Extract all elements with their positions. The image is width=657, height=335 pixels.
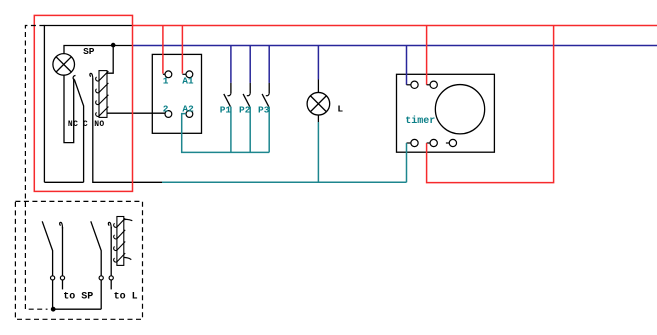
wire red phase bus — [132, 25, 657, 27]
pin terminal A1 — [182, 71, 192, 78]
svg-text:2: 2 — [163, 103, 169, 114]
wire red return loop — [427, 26, 554, 183]
wire box bottom left segment — [44, 181, 83, 183]
wire red drop to terminal 1 — [162, 26, 164, 74]
lamp SP bottom leads (U channel) — [64, 75, 74, 143]
svg-text:to SP: to SP — [63, 292, 93, 303]
wire S1 fixed stub — [62, 280, 64, 289]
contact NO hook — [90, 73, 93, 79]
pin S2 fixed — [109, 276, 113, 280]
svg-text:NC: NC — [68, 120, 78, 129]
contactor terminal box — [152, 54, 201, 133]
wire coil K2 top stub — [124, 219, 133, 220]
pin timer bottom 3 — [446, 139, 457, 146]
svg-text:P2: P2 — [239, 105, 251, 116]
svg-text:1: 1 — [163, 75, 169, 86]
lamp L — [307, 80, 330, 123]
switch S1 blade — [42, 221, 52, 275]
pin S1 fixed — [60, 276, 64, 280]
switch blade C — [74, 79, 83, 182]
wire coil K2 bottom stub — [124, 257, 132, 259]
dashed link SP box to remote switches — [25, 26, 47, 310]
pin terminal A2 — [186, 111, 193, 118]
contact S1 fixed — [60, 222, 63, 275]
pin terminal 2 — [165, 111, 172, 118]
timer dial — [435, 85, 484, 134]
wire S2 fixed stub — [110, 280, 112, 289]
relay coil K2 — [114, 217, 126, 266]
wire S1 to junction — [52, 280, 54, 309]
wire S2 to junction rail — [100, 280, 102, 309]
pin timer bottom 2 — [427, 139, 438, 146]
node junction bottom — [51, 307, 56, 312]
pushbutton P3 — [262, 46, 269, 153]
relay coil K1 — [96, 71, 109, 118]
contact S2 fixed — [108, 222, 111, 275]
svg-text:C: C — [83, 120, 88, 129]
svg-text:A1: A1 — [182, 75, 194, 86]
pin S1 blade — [51, 276, 55, 280]
svg-text:P1: P1 — [220, 105, 232, 116]
wire red drop to timer — [426, 26, 428, 85]
wire lamp SP top lead — [64, 46, 133, 54]
contact NC hook — [73, 75, 75, 79]
enclosure box of SP switch assembly — [44, 26, 132, 183]
svg-text:NO: NO — [94, 120, 104, 129]
wire junction to coil K1 — [107, 46, 113, 74]
wire timer bottom to NO rail — [406, 143, 408, 182]
wire lamp L to NO rail — [317, 122, 319, 182]
wire blue neutral bus — [133, 45, 657, 47]
svg-text:to L: to L — [114, 292, 138, 303]
lamp SP — [53, 54, 75, 76]
dashed enclosure remote switch unit — [15, 201, 142, 319]
timer box — [397, 74, 495, 152]
pushbutton P2 — [243, 46, 250, 153]
wire bottom tie rail — [51, 308, 101, 310]
wire NO contact lead — [93, 79, 162, 183]
pin timer top 1 — [407, 81, 419, 88]
red highlight box around SP assembly — [34, 15, 132, 191]
wire coil K1 to terminal 2 — [107, 112, 165, 114]
pin timer bottom 1 — [407, 139, 419, 146]
svg-text:L: L — [337, 104, 343, 115]
pushbutton P1 — [224, 46, 231, 153]
pin terminal 1 — [163, 71, 172, 78]
svg-text:timer: timer — [405, 115, 435, 127]
wire blue drop to timer — [406, 46, 408, 85]
wire blue drop to lamp L — [317, 46, 319, 80]
pin S2 blade — [99, 276, 103, 280]
node junction on SP wire — [111, 43, 116, 48]
switch S2 blade — [91, 221, 101, 275]
pin timer top 2 — [427, 81, 438, 88]
svg-text:A2: A2 — [182, 103, 194, 114]
wire red drop to terminal A1 — [181, 26, 183, 74]
svg-text:P3: P3 — [258, 105, 270, 116]
svg-text:SP: SP — [83, 46, 95, 57]
wire A2 to pushbutton rail — [182, 114, 270, 153]
wire NO teal rail — [162, 181, 407, 183]
